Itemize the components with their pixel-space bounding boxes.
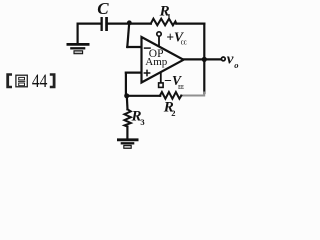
svg-text:C: C xyxy=(97,0,109,18)
svg-text:CC: CC xyxy=(181,40,187,47)
svg-text:Amp: Amp xyxy=(145,56,168,68)
svg-text:3: 3 xyxy=(140,117,144,127)
svg-text:EE: EE xyxy=(178,84,184,91)
svg-text:44: 44 xyxy=(32,71,48,92)
svg-text:v: v xyxy=(227,51,234,67)
svg-text:1: 1 xyxy=(167,11,171,21)
svg-text:2: 2 xyxy=(171,108,175,118)
svg-text:o: o xyxy=(234,60,238,70)
